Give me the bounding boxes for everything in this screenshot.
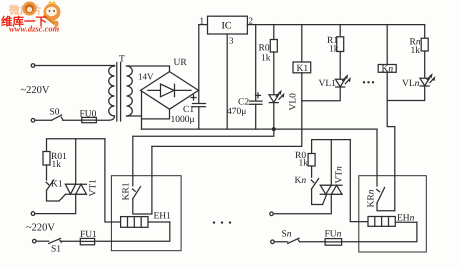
wire Kn coil down with jog into KRn enclosure xyxy=(387,72,395,211)
svg-text:KR1: KR1 xyxy=(122,182,132,200)
svg-text:~220V: ~220V xyxy=(26,223,55,234)
wire bridge bottom vertex down and left to rail-start column xyxy=(142,109,170,119)
svg-text:Kn: Kn xyxy=(295,176,307,186)
node AC terminal top-left xyxy=(31,64,35,68)
plus sign of C1 xyxy=(191,95,196,100)
heater EH1 xyxy=(121,217,148,228)
resistor Rn 1k xyxy=(421,38,428,51)
relay contact K1 xyxy=(46,180,54,190)
svg-text:S0: S0 xyxy=(50,108,60,118)
node AC terminal (heater upper, left) xyxy=(31,212,35,216)
wire KRn lower U-return to Kn coil line xyxy=(377,203,395,211)
svg-text:FU1: FU1 xyxy=(80,230,97,240)
wire R0 to LED VL0 xyxy=(273,52,275,95)
svg-text:C1: C1 xyxy=(183,105,194,115)
capacitor C2 xyxy=(250,25,263,130)
wire VL1 bottom to K1 branch xyxy=(302,87,340,101)
wire VTn MT2 down to AC terminal xyxy=(273,194,331,214)
transformer T primary winding xyxy=(109,66,115,117)
wire Rn to LED VLn xyxy=(424,51,426,78)
transformer T secondary winding xyxy=(127,66,133,116)
node AC terminal (heater lower, left) xyxy=(33,239,37,243)
relay coil Kn box xyxy=(378,65,396,73)
svg-text:~220V: ~220V xyxy=(21,85,50,96)
svg-text:2: 2 xyxy=(249,16,254,26)
svg-text:14V: 14V xyxy=(138,72,154,82)
fuse FU0 xyxy=(82,117,97,122)
wire IC pin2 rail to the right xyxy=(247,24,424,26)
wire Sn to fuse FUn xyxy=(300,241,325,243)
wire rail to relay coil K1 xyxy=(301,25,303,62)
node ellipsis dots bottom middle xyxy=(213,221,231,223)
svg-text:K1: K1 xyxy=(297,64,309,74)
watermark logo dzsc xyxy=(1,1,61,34)
switch Sn xyxy=(288,238,300,243)
switch S1 xyxy=(49,238,62,243)
wire FU0 to transformer primary bottom xyxy=(96,116,114,120)
wire rail to relay coil Kn xyxy=(386,25,388,65)
wire EH1 right lead xyxy=(148,221,170,223)
wire EHn feed from top wire xyxy=(350,140,368,222)
LED VL1 xyxy=(335,76,350,87)
svg-text:VL1: VL1 xyxy=(319,79,337,89)
node ellipsis dots between VL1 and VLn xyxy=(363,81,374,83)
svg-text:www.dzsc.com: www.dzsc.com xyxy=(9,24,60,34)
svg-text:FU0: FU0 xyxy=(80,109,97,119)
relay coil K1 box xyxy=(293,62,311,73)
bridge rectifier UR diamond xyxy=(141,72,199,110)
wire IC pin1 stub xyxy=(199,24,208,26)
wire Kn contact to gate of VTn xyxy=(312,189,327,205)
wire from top-left terminal to transformer primary top xyxy=(35,65,115,67)
wire terminal to switch Sn xyxy=(274,241,287,243)
wire S1 to fuse FU1 xyxy=(62,240,81,242)
wire top to triac VTn MT1 xyxy=(330,140,332,186)
wire bridge left vertex down to secondary-bottom node and rail start xyxy=(141,91,143,129)
svg-text:VL0: VL0 xyxy=(289,93,299,111)
wire rail to resistor R1 xyxy=(339,25,341,37)
wire secondary bottom to rail corner node xyxy=(127,115,142,117)
wire IC pin3 down to ground rail xyxy=(226,34,228,129)
wire node to KR1 upper (thermal contact feed A) xyxy=(133,129,274,186)
svg-text:FUn: FUn xyxy=(325,230,342,240)
svg-text:470μ: 470μ xyxy=(227,107,246,117)
wire heater section top (left unit) with R01 drop xyxy=(47,139,105,152)
node AC terminal lower (S0 side) xyxy=(31,119,35,123)
svg-text:1k: 1k xyxy=(411,46,421,56)
svg-text:Sn: Sn xyxy=(282,230,292,240)
wire K1 coil down crossing rail to KR1 return B xyxy=(152,73,302,147)
svg-text:UR: UR xyxy=(174,58,188,68)
wire VLn bottom to Kn branch xyxy=(387,86,425,101)
wire terminal to switch S0 xyxy=(35,119,52,121)
wire VT1 MT2 down to AC terminal xyxy=(35,194,76,213)
svg-text:T: T xyxy=(119,55,125,65)
wire VL0 to ground rail junction xyxy=(273,103,275,130)
resistor R0 1k xyxy=(270,40,277,53)
wire bridge right vertex to C1 / IC pin 1 column xyxy=(198,89,200,91)
svg-text:1k: 1k xyxy=(329,45,339,55)
capacitor C1 xyxy=(193,104,206,130)
svg-text:VLn: VLn xyxy=(402,79,420,89)
LED VLn xyxy=(420,75,435,86)
appliance enclosure box (right unit) xyxy=(359,176,427,252)
triac VTn xyxy=(320,185,342,194)
svg-text:1k: 1k xyxy=(52,160,62,170)
svg-text:VT1: VT1 xyxy=(89,179,99,197)
wire FU1 to EH1 right lead xyxy=(95,222,170,241)
wire top to triac VT1 MT1 xyxy=(75,139,77,185)
transformer T core xyxy=(117,63,121,122)
wire EH1 feed from top wire xyxy=(105,139,121,222)
fuse FU1 xyxy=(80,238,94,244)
relay contact Kn xyxy=(311,179,318,189)
svg-text:R0: R0 xyxy=(259,44,270,54)
wire EHn right lead xyxy=(395,221,417,223)
wire R1 to LED VL1 xyxy=(339,52,341,80)
LED VL0 xyxy=(269,91,284,102)
wire heater section top (right unit) xyxy=(312,140,351,154)
wire R01 to contact K1 xyxy=(46,165,48,180)
plus sign of C2 xyxy=(256,93,261,98)
svg-text:EH1: EH1 xyxy=(154,212,172,222)
wire secondary top to bridge top vertex xyxy=(127,66,170,72)
thermal contact KRn xyxy=(377,188,385,204)
svg-text:C2: C2 xyxy=(238,98,249,108)
svg-text:KRn: KRn xyxy=(367,189,377,207)
svg-text:Kn: Kn xyxy=(382,64,394,74)
wire terminal to switch S1 xyxy=(36,240,49,242)
wire rail to resistor R0 xyxy=(273,25,275,40)
wire R0n to contact Kn xyxy=(311,166,313,177)
svg-text:EHn: EHn xyxy=(397,214,415,224)
heater EHn xyxy=(368,217,395,227)
wire S0 to fuse FU0 xyxy=(63,119,82,121)
svg-text:1: 1 xyxy=(200,16,205,26)
wire ground rail xyxy=(142,128,378,130)
svg-text:IC: IC xyxy=(222,21,232,32)
wire rail end down to thermal contact KRn xyxy=(376,129,378,186)
resistor R1 1k xyxy=(337,37,344,52)
svg-text:1000μ: 1000μ xyxy=(171,115,195,125)
wire rail end to resistor Rn xyxy=(424,25,426,39)
wire K1 contact to gate of VT1 xyxy=(47,190,66,201)
svg-text:S1: S1 xyxy=(51,245,61,255)
appliance enclosure box (left unit) xyxy=(111,176,181,251)
wire IC pin1 column down to C1 xyxy=(198,25,200,104)
svg-text:1k: 1k xyxy=(261,54,271,64)
wire KR1 lower U-return to coil line B xyxy=(133,146,152,214)
switch S0 xyxy=(52,115,63,120)
resistor R0n 1k xyxy=(308,154,315,167)
svg-text:3: 3 xyxy=(229,36,234,46)
node AC terminal (heater lower, right) xyxy=(271,240,275,244)
svg-text:VTn: VTn xyxy=(335,166,345,184)
resistor R01 1k xyxy=(43,152,50,166)
node AC terminal (heater upper, right) xyxy=(270,212,274,216)
junction dot VL0 / rail / thermal line xyxy=(272,127,276,131)
svg-text:K1: K1 xyxy=(51,180,63,190)
wire FUn to EHn right lead xyxy=(342,222,417,242)
thermal contact KR1 xyxy=(132,187,140,199)
fuse FUn xyxy=(325,239,342,246)
IC U1 box xyxy=(208,16,248,34)
diode inside bridge UR xyxy=(148,84,191,97)
triac VT1 xyxy=(65,184,86,194)
svg-text:1k: 1k xyxy=(299,159,309,169)
